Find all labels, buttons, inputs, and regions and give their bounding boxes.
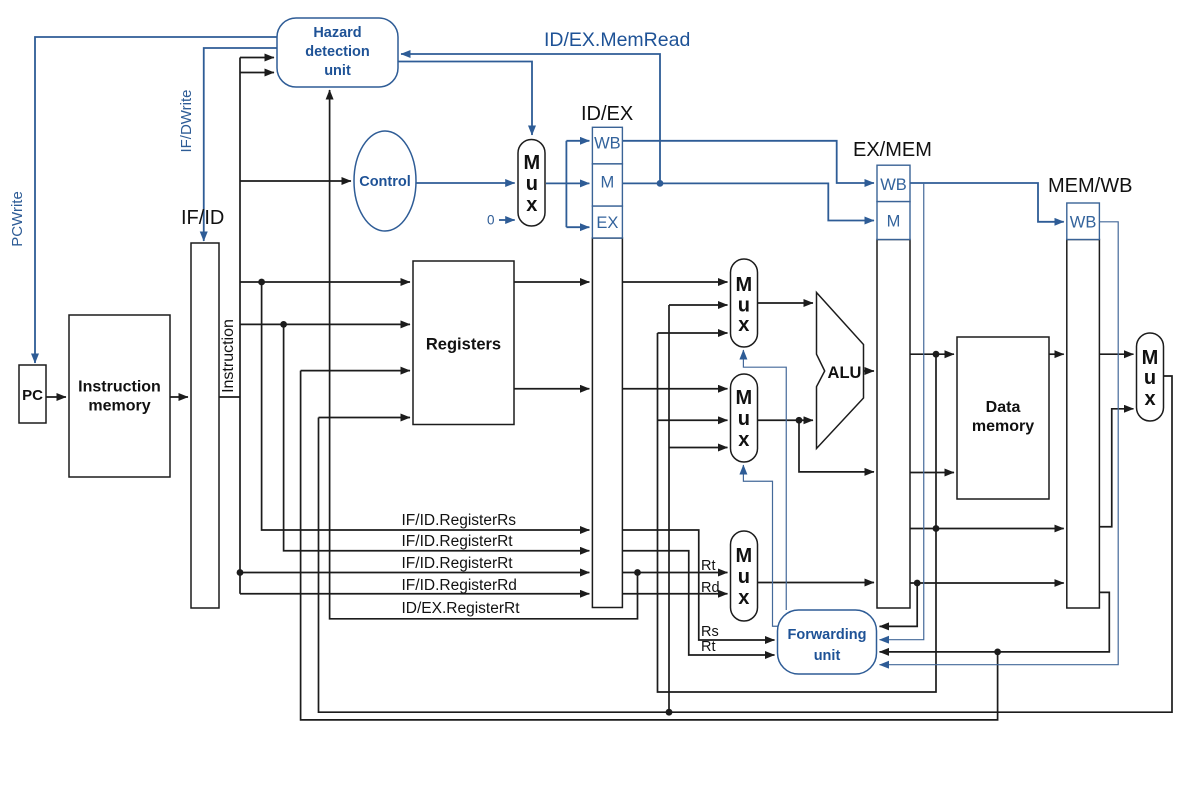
svg-text:x: x [738, 314, 749, 336]
svg-text:memory: memory [972, 418, 1034, 435]
svg-text:Rs: Rs [701, 624, 719, 640]
svg-text:x: x [738, 429, 749, 451]
svg-text:Data: Data [986, 399, 1021, 416]
svg-text:ID/EX: ID/EX [581, 103, 633, 125]
svg-text:IF/ID.RegisterRt: IF/ID.RegisterRt [402, 555, 514, 572]
svg-text:MEM/WB: MEM/WB [1048, 175, 1132, 197]
svg-text:0: 0 [487, 213, 495, 228]
svg-text:IF/ID: IF/ID [181, 207, 224, 229]
svg-text:Instruction: Instruction [220, 319, 237, 393]
svg-text:memory: memory [88, 398, 150, 415]
svg-text:M: M [887, 213, 901, 231]
svg-text:M: M [735, 387, 752, 409]
svg-text:Registers: Registers [426, 336, 501, 354]
svg-text:x: x [738, 587, 749, 609]
svg-text:M: M [523, 152, 540, 174]
svg-text:M: M [601, 174, 615, 192]
svg-text:Rt: Rt [701, 639, 716, 655]
svg-text:Forwarding: Forwarding [788, 627, 867, 643]
svg-text:u: u [738, 566, 750, 588]
svg-text:IF/DWrite: IF/DWrite [178, 89, 195, 152]
svg-text:M: M [1142, 347, 1159, 369]
svg-text:M: M [735, 545, 752, 567]
svg-text:PCWrite: PCWrite [9, 191, 26, 247]
svg-text:u: u [1144, 367, 1156, 389]
svg-text:IF/ID.RegisterRt: IF/ID.RegisterRt [402, 533, 514, 550]
svg-text:WB: WB [1070, 214, 1097, 232]
svg-text:u: u [738, 408, 750, 430]
svg-text:Rt: Rt [701, 558, 716, 574]
svg-text:detection: detection [305, 44, 369, 60]
svg-text:x: x [526, 194, 537, 216]
svg-text:M: M [735, 274, 752, 296]
svg-text:Control: Control [359, 174, 411, 190]
svg-text:x: x [1144, 388, 1155, 410]
svg-text:Instruction: Instruction [78, 379, 161, 396]
svg-text:ID/EX.RegisterRt: ID/EX.RegisterRt [402, 600, 521, 617]
svg-text:WB: WB [594, 135, 621, 153]
svg-text:unit: unit [324, 63, 351, 79]
svg-text:Rd: Rd [701, 580, 720, 596]
svg-text:unit: unit [814, 648, 841, 664]
svg-text:EX/MEM: EX/MEM [853, 139, 932, 161]
svg-text:WB: WB [880, 176, 907, 194]
svg-text:IF/ID.RegisterRd: IF/ID.RegisterRd [402, 577, 517, 594]
svg-text:u: u [526, 173, 538, 195]
svg-text:PC: PC [22, 387, 43, 404]
svg-text:ALU: ALU [828, 364, 862, 382]
svg-text:ID/EX.MemRead: ID/EX.MemRead [544, 29, 690, 51]
svg-text:EX: EX [596, 214, 618, 232]
svg-text:IF/ID.RegisterRs: IF/ID.RegisterRs [402, 512, 517, 529]
svg-text:Hazard: Hazard [313, 25, 361, 41]
